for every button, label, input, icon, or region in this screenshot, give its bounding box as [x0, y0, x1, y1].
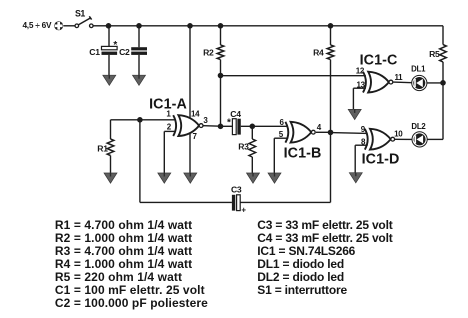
svg-text:S1: S1 — [75, 9, 85, 19]
svg-text:R5: R5 — [429, 49, 440, 59]
svg-text:IC1-C: IC1-C — [360, 53, 398, 69]
svg-text:IC1-D: IC1-D — [362, 152, 400, 168]
svg-text:R5 = 220 ohm 1/4 watt: R5 = 220 ohm 1/4 watt — [55, 270, 182, 284]
svg-text:R1 = 4.700 ohm 1/4 watt: R1 = 4.700 ohm 1/4 watt — [55, 218, 192, 232]
svg-text:14: 14 — [191, 110, 200, 119]
svg-text:10: 10 — [394, 130, 403, 139]
svg-text:*: * — [227, 118, 231, 129]
svg-text:13: 13 — [356, 81, 365, 90]
svg-text:C4: C4 — [230, 109, 241, 119]
svg-text:DL1 = diodo led: DL1 = diodo led — [257, 257, 344, 271]
svg-text:C2: C2 — [119, 47, 130, 57]
svg-text:DL1: DL1 — [411, 65, 426, 74]
svg-text:R4: R4 — [313, 48, 324, 58]
svg-text:IC1 = SN.74LS266: IC1 = SN.74LS266 — [257, 244, 355, 258]
svg-text:R3 = 4.700 ohm 1/4 watt: R3 = 4.700 ohm 1/4 watt — [55, 244, 192, 258]
svg-text:12: 12 — [356, 67, 365, 76]
svg-text:R4 = 1.000 ohm 1/4 watt: R4 = 1.000 ohm 1/4 watt — [55, 257, 192, 271]
svg-text:R2 = 1.000 ohm 1/4 watt: R2 = 1.000 ohm 1/4 watt — [55, 231, 192, 245]
svg-text:C3 = 33 mF elettr. 25 volt: C3 = 33 mF elettr. 25 volt — [257, 218, 392, 232]
svg-text:R3: R3 — [238, 142, 249, 152]
svg-text:+: + — [241, 206, 246, 215]
svg-text:DL2 = diodo led: DL2 = diodo led — [257, 270, 344, 284]
svg-text:R1: R1 — [97, 144, 108, 154]
svg-text:DL2: DL2 — [411, 122, 426, 131]
svg-text:C2 = 100.000 pF poliestere: C2 = 100.000 pF poliestere — [55, 296, 208, 310]
svg-text:C1 = 100 mF elettr. 25 volt: C1 = 100 mF elettr. 25 volt — [55, 283, 205, 297]
svg-text:S1 = interruttore: S1 = interruttore — [257, 283, 347, 297]
svg-text:4,5 ÷ 6V: 4,5 ÷ 6V — [22, 20, 52, 30]
svg-text:R2: R2 — [203, 48, 214, 58]
svg-text:IC1-B: IC1-B — [284, 146, 322, 162]
svg-text:C1: C1 — [89, 47, 100, 57]
svg-text:*: * — [113, 40, 117, 51]
svg-text:C4 = 33 mF elettr. 25 volt: C4 = 33 mF elettr. 25 volt — [257, 231, 392, 245]
svg-text:C3: C3 — [231, 184, 242, 194]
svg-text:11: 11 — [394, 73, 403, 82]
